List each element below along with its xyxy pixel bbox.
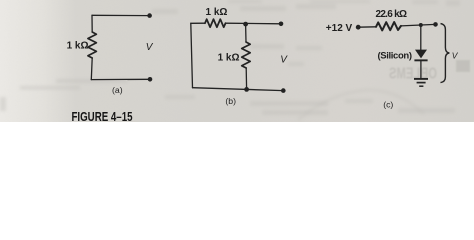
circuit (b) middle branch upper wire [245,24,247,42]
svg-text:+12 V: +12 V [326,23,353,34]
node dot circuit (b) top junction [243,22,248,27]
circuit (a) left wire upper segment [91,15,93,32]
circuit (b) left wire [191,23,193,87]
circuit (a) bottom wire [91,78,150,80]
resistor 22.6 kOhm circuit (c) [376,22,401,30]
svg-text:22.6 kΩ: 22.6 kΩ [376,9,408,20]
circuit (c) wire from resistor to node [401,24,436,26]
ground symbol circuit (c) [414,79,428,86]
diode D1 silicon [414,50,427,62]
resistor 1 kOhm circuit (b) shunt [242,42,251,68]
svg-text:1 kΩ: 1 kΩ [67,41,89,52]
bleed-through mirrored headline ghost [389,60,470,83]
node dot circuit (a) top terminal [147,13,152,18]
resistor 1 kOhm circuit (a) [88,32,97,58]
svg-text:(a): (a) [112,85,123,95]
circuit (b) middle branch lower wire [245,68,247,89]
node dot circuit (a) bottom terminal [148,77,153,82]
svg-text:(Silicon): (Silicon) [378,50,413,61]
circuit (c) wire from supply to resistor [358,26,376,28]
node dot circuit (b) bottom junction [244,87,249,92]
svg-text:FIGURE 4–15: FIGURE 4–15 [72,109,133,122]
node dot circuit (c) +12V terminal [356,25,361,30]
svg-text:1 kΩ: 1 kΩ [218,53,240,64]
node dot circuit (c) right terminal [433,22,438,27]
circuit (b) top wire left segment [191,22,205,24]
node dot circuit (b) bottom terminal [281,88,286,93]
circuit (c) diode branch lower wire [420,61,422,79]
svg-text:(b): (b) [225,96,236,106]
svg-text:OBLEMS: OBLEMS [389,66,437,83]
circuit (b) top wire right segment [226,22,282,25]
bleed-through ghost curve [298,90,424,120]
circuit (a) top wire [92,14,150,16]
circuit (c) diode branch upper wire [420,25,422,50]
page background [0,0,474,122]
node dot circuit (b) top terminal [279,22,284,27]
svg-text:1 kΩ: 1 kΩ [206,7,228,18]
circuit (b) bottom wire [193,88,284,91]
faint bleed-through smudges [0,0,460,115]
node dot circuit (c) diode branch junction [419,23,423,27]
circuit (a) left wire lower segment [90,58,93,80]
brace for V across diode [441,24,450,83]
resistor 1 kOhm circuit (b) series [205,19,226,27]
svg-text:(c): (c) [383,100,393,110]
